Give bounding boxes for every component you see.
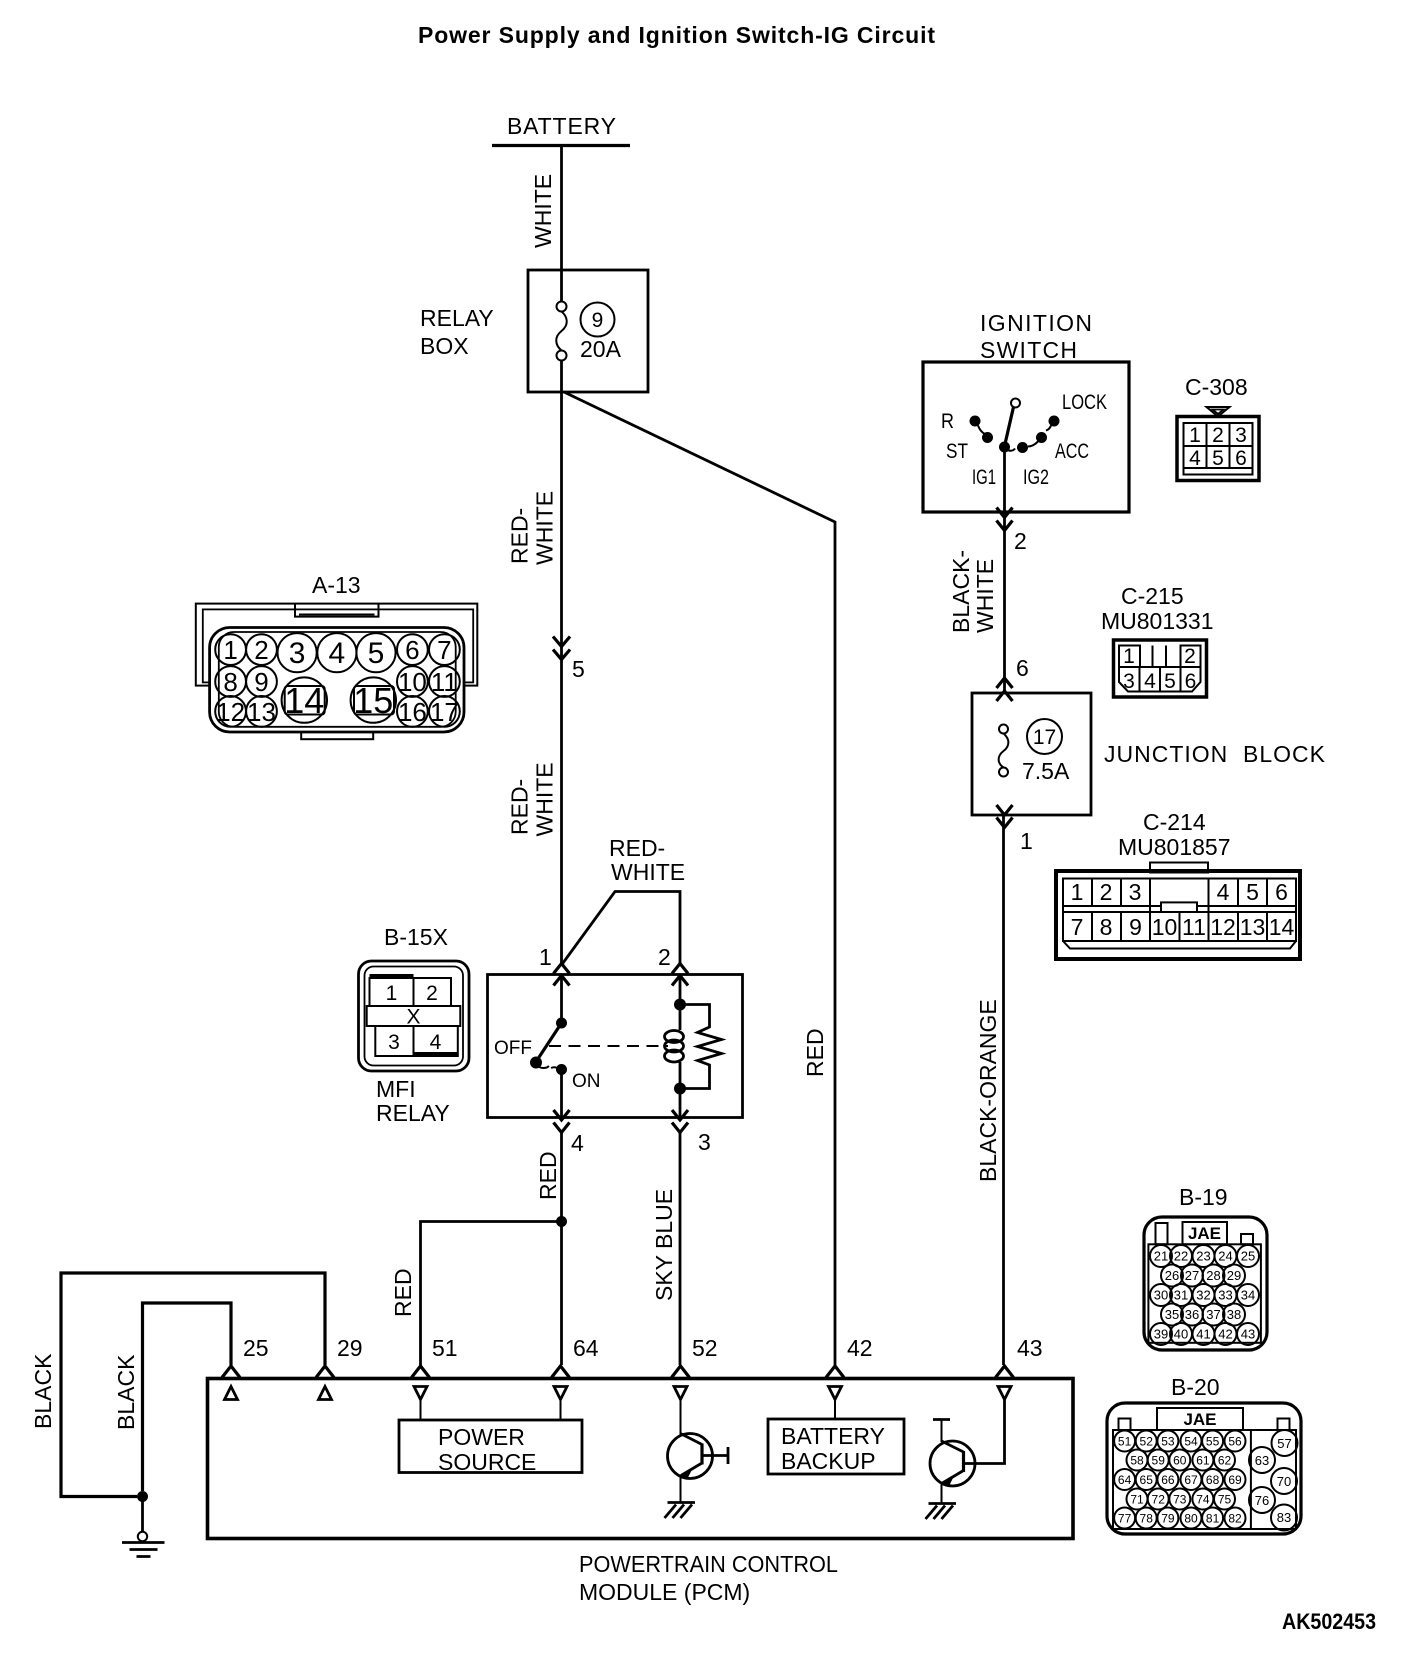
PCM pin 64 bbox=[552, 1335, 599, 1400]
svg-text:BATTERY: BATTERY bbox=[781, 1423, 885, 1449]
svg-text:C-308: C-308 bbox=[1185, 374, 1248, 400]
MFI relay pin 4 arrow bbox=[554, 1110, 585, 1156]
B-19 pins 30-34 bbox=[1150, 1284, 1259, 1306]
connector icon B-15X bbox=[359, 924, 470, 1126]
svg-text:75: 75 bbox=[1218, 1493, 1232, 1507]
svg-text:6: 6 bbox=[1016, 655, 1029, 681]
svg-text:40: 40 bbox=[1174, 1327, 1188, 1342]
svg-text:42: 42 bbox=[1218, 1327, 1232, 1342]
svg-text:Power Supply and Ignition Swit: Power Supply and Ignition Switch-IG Circ… bbox=[418, 22, 935, 48]
svg-text:58: 58 bbox=[1130, 1454, 1144, 1468]
svg-text:1: 1 bbox=[1123, 645, 1135, 668]
svg-text:32: 32 bbox=[1196, 1288, 1210, 1303]
svg-text:WHITE: WHITE bbox=[972, 559, 998, 633]
svg-text:43: 43 bbox=[1241, 1327, 1255, 1342]
svg-text:15: 15 bbox=[353, 680, 393, 721]
svg-text:52: 52 bbox=[692, 1335, 718, 1361]
wire battery to relay box bbox=[560, 146, 563, 271]
ignition switch U1 bbox=[923, 310, 1129, 512]
svg-text:81: 81 bbox=[1206, 1512, 1220, 1526]
svg-text:4: 4 bbox=[571, 1130, 584, 1156]
svg-text:2: 2 bbox=[426, 982, 438, 1005]
ignition switch position labels bbox=[941, 391, 1107, 489]
svg-text:30: 30 bbox=[1154, 1288, 1168, 1303]
svg-text:2: 2 bbox=[1212, 424, 1224, 447]
svg-text:23: 23 bbox=[1196, 1249, 1210, 1264]
svg-text:34: 34 bbox=[1241, 1288, 1255, 1303]
MFI relay pin 3 arrow bbox=[672, 1110, 711, 1155]
PCM pin 52 bbox=[672, 1335, 718, 1400]
wire ignition switch to junction block bbox=[1003, 447, 1006, 693]
svg-text:77: 77 bbox=[1118, 1512, 1132, 1526]
svg-text:B-20: B-20 bbox=[1171, 1374, 1220, 1400]
PCM pin 51 bbox=[412, 1335, 458, 1400]
svg-text:39: 39 bbox=[1154, 1327, 1168, 1342]
PCM pin 43 bbox=[996, 1335, 1043, 1400]
svg-text:29: 29 bbox=[1227, 1268, 1241, 1283]
svg-text:4: 4 bbox=[430, 1031, 442, 1054]
ignition switch contact LOCK bbox=[1046, 416, 1060, 431]
svg-text:7: 7 bbox=[437, 635, 451, 665]
wire label RED-WHITE (lower) bbox=[507, 762, 558, 836]
A-13 pin 5 bbox=[356, 633, 395, 672]
svg-text:BATTERY: BATTERY bbox=[507, 113, 616, 139]
svg-text:60: 60 bbox=[1173, 1454, 1187, 1468]
svg-text:6: 6 bbox=[1275, 879, 1288, 905]
wire junction block to PCM pin 43 bbox=[1002, 815, 1005, 1365]
svg-text:4: 4 bbox=[1217, 879, 1230, 905]
svg-text:63: 63 bbox=[1255, 1453, 1269, 1468]
svg-text:3: 3 bbox=[1123, 670, 1135, 693]
junction block bbox=[972, 693, 1326, 815]
svg-text:14: 14 bbox=[1269, 914, 1295, 940]
node ground junction bbox=[137, 1491, 148, 1502]
svg-text:79: 79 bbox=[1161, 1512, 1175, 1526]
node RED junction bbox=[556, 1216, 567, 1227]
svg-text:66: 66 bbox=[1161, 1473, 1175, 1487]
connector B-20 bbox=[1107, 1374, 1301, 1534]
arrow at ignition switch pin 2 bbox=[997, 508, 1027, 555]
PCM box (powertrain control module) bbox=[208, 1379, 1074, 1606]
svg-text:C-214: C-214 bbox=[1143, 809, 1206, 835]
svg-text:82: 82 bbox=[1228, 1512, 1242, 1526]
svg-text:AK502453: AK502453 bbox=[1282, 1609, 1376, 1634]
svg-text:WHITE: WHITE bbox=[532, 491, 558, 565]
svg-text:MU801857: MU801857 bbox=[1118, 834, 1231, 860]
svg-text:14: 14 bbox=[284, 680, 324, 721]
svg-text:8: 8 bbox=[1100, 914, 1113, 940]
svg-text:IGNITION: IGNITION bbox=[980, 310, 1092, 336]
svg-text:67: 67 bbox=[1184, 1473, 1198, 1487]
connector C-215 MU801331 bbox=[1101, 583, 1214, 697]
svg-text:BLACK: BLACK bbox=[113, 1354, 139, 1430]
svg-text:MU801331: MU801331 bbox=[1101, 608, 1214, 634]
svg-text:13: 13 bbox=[247, 697, 276, 727]
svg-text:SKY BLUE: SKY BLUE bbox=[651, 1189, 677, 1301]
A-13 pin 3 bbox=[278, 633, 317, 672]
connector C-214 MU801857 bbox=[1056, 809, 1300, 959]
A-13 pin 14 bbox=[282, 677, 327, 722]
battery backup block bbox=[768, 1400, 904, 1475]
fuse F17 7.5A bbox=[999, 719, 1070, 784]
svg-text:71: 71 bbox=[1130, 1493, 1144, 1507]
PCM pin 29 bbox=[316, 1335, 363, 1400]
battery terminal bbox=[492, 113, 630, 146]
power source block bbox=[399, 1400, 582, 1476]
svg-text:9: 9 bbox=[592, 309, 604, 332]
svg-text:25: 25 bbox=[243, 1335, 269, 1361]
svg-text:68: 68 bbox=[1206, 1473, 1220, 1487]
svg-text:26: 26 bbox=[1165, 1268, 1179, 1283]
svg-text:12: 12 bbox=[216, 697, 245, 727]
svg-text:3: 3 bbox=[388, 1031, 400, 1054]
svg-text:JAE: JAE bbox=[1183, 1410, 1216, 1429]
svg-text:76: 76 bbox=[1255, 1493, 1269, 1508]
svg-text:2: 2 bbox=[658, 944, 671, 970]
svg-text:1: 1 bbox=[1071, 879, 1084, 905]
svg-text:64: 64 bbox=[573, 1335, 599, 1361]
svg-text:2: 2 bbox=[254, 635, 268, 665]
svg-text:ACC: ACC bbox=[1055, 440, 1089, 463]
relay resistor bbox=[674, 1005, 722, 1118]
B-20 pins 71-76 bbox=[1127, 1487, 1276, 1513]
A-13 pin 7 bbox=[429, 634, 460, 665]
svg-text:6: 6 bbox=[1235, 447, 1247, 470]
svg-text:55: 55 bbox=[1206, 1435, 1220, 1449]
svg-text:10: 10 bbox=[1152, 914, 1178, 940]
svg-text:2: 2 bbox=[1100, 879, 1113, 905]
A-13 pin 11 bbox=[429, 666, 460, 697]
svg-text:SOURCE: SOURCE bbox=[438, 1449, 536, 1475]
svg-text:41: 41 bbox=[1196, 1327, 1210, 1342]
svg-text:62: 62 bbox=[1218, 1454, 1232, 1468]
svg-text:16: 16 bbox=[398, 697, 427, 727]
A-13 pin 6 bbox=[397, 634, 428, 665]
svg-text:38: 38 bbox=[1227, 1307, 1241, 1322]
arrow connector 5 bbox=[553, 637, 585, 683]
wire label RED-WHITE (upper) bbox=[507, 491, 558, 565]
svg-text:27: 27 bbox=[1185, 1268, 1199, 1283]
wire MFI pin 4 to PCM pin 64 bbox=[560, 1133, 563, 1366]
svg-text:7: 7 bbox=[1071, 914, 1084, 940]
svg-text:4: 4 bbox=[329, 637, 346, 670]
svg-text:RELAY: RELAY bbox=[376, 1100, 450, 1126]
svg-text:9: 9 bbox=[254, 667, 268, 697]
svg-text:51: 51 bbox=[1118, 1435, 1132, 1449]
A-13 pin 15 bbox=[351, 677, 396, 722]
svg-text:X: X bbox=[406, 1006, 420, 1029]
B-20 pins 51-57 bbox=[1114, 1430, 1297, 1456]
svg-text:53: 53 bbox=[1161, 1435, 1175, 1449]
svg-text:BLACK: BLACK bbox=[30, 1353, 56, 1429]
svg-text:21: 21 bbox=[1154, 1249, 1168, 1264]
connector A-13 bbox=[196, 572, 478, 739]
svg-text:C-215: C-215 bbox=[1121, 583, 1184, 609]
svg-text:3: 3 bbox=[1235, 424, 1247, 447]
B-19 pins 21-25 bbox=[1150, 1245, 1259, 1267]
svg-text:BLACK-ORANGE: BLACK-ORANGE bbox=[975, 999, 1001, 1182]
B-20 pins 58-63 bbox=[1127, 1447, 1276, 1473]
svg-text:57: 57 bbox=[1277, 1436, 1291, 1451]
wire relay box to PCM pin 42 (diagonal + vertical RED wire) bbox=[564, 392, 835, 1365]
svg-text:1: 1 bbox=[539, 944, 552, 970]
svg-text:IG2: IG2 bbox=[1023, 466, 1049, 489]
svg-text:13: 13 bbox=[1240, 914, 1266, 940]
svg-text:72: 72 bbox=[1152, 1493, 1166, 1507]
svg-text:RED: RED bbox=[802, 1028, 828, 1077]
svg-text:20A: 20A bbox=[580, 336, 622, 362]
svg-text:RELAY: RELAY bbox=[420, 305, 494, 331]
A-13 pin 17 bbox=[429, 696, 460, 727]
svg-text:78: 78 bbox=[1140, 1512, 1154, 1526]
relay coil dashed actuation line bbox=[549, 1045, 668, 1047]
B-19 pins 26-29 bbox=[1161, 1265, 1245, 1287]
relay box bbox=[420, 270, 648, 392]
svg-text:SWITCH: SWITCH bbox=[980, 337, 1077, 363]
ignition switch contact R bbox=[970, 416, 994, 444]
wire relay box to MFI relay pin 1 bbox=[560, 392, 563, 963]
svg-text:3: 3 bbox=[1129, 879, 1142, 905]
arrow at junction block pin 6 bbox=[997, 678, 1013, 701]
svg-text:RED-: RED- bbox=[507, 508, 533, 564]
svg-text:2: 2 bbox=[1014, 528, 1027, 554]
svg-text:83: 83 bbox=[1277, 1510, 1291, 1525]
svg-text:B-19: B-19 bbox=[1179, 1184, 1228, 1210]
MFI relay pin 1 arrow bbox=[539, 944, 570, 986]
svg-text:2: 2 bbox=[1184, 645, 1196, 668]
svg-text:RED-: RED- bbox=[609, 835, 665, 861]
svg-text:RED: RED bbox=[535, 1151, 561, 1200]
A-13 pin 16 bbox=[397, 696, 428, 727]
svg-text:17: 17 bbox=[1033, 726, 1056, 749]
wire branch to PCM pin 51 bbox=[421, 1222, 562, 1366]
B-19 pins 35-38 bbox=[1161, 1304, 1245, 1326]
svg-text:42: 42 bbox=[847, 1335, 873, 1361]
ignition switch contact IG1 (center node) bbox=[999, 442, 1015, 453]
svg-text:12: 12 bbox=[1210, 914, 1236, 940]
svg-text:74: 74 bbox=[1196, 1493, 1210, 1507]
svg-text:RED: RED bbox=[390, 1268, 416, 1317]
svg-text:POWERTRAIN CONTROL: POWERTRAIN CONTROL bbox=[579, 1551, 838, 1577]
svg-text:OFF: OFF bbox=[494, 1038, 532, 1059]
svg-text:BLACK-: BLACK- bbox=[948, 550, 974, 633]
svg-text:1: 1 bbox=[1020, 828, 1033, 854]
PCM pin 42 bbox=[826, 1335, 873, 1400]
svg-text:65: 65 bbox=[1140, 1473, 1154, 1487]
svg-text:35: 35 bbox=[1165, 1307, 1179, 1322]
svg-text:BACKUP: BACKUP bbox=[781, 1448, 876, 1474]
A-13 pin 10 bbox=[397, 666, 428, 697]
svg-text:IG1: IG1 bbox=[972, 466, 996, 489]
svg-text:4: 4 bbox=[1189, 447, 1201, 470]
svg-text:B-15X: B-15X bbox=[384, 924, 448, 950]
ground Q2 bbox=[926, 1504, 957, 1520]
svg-text:5: 5 bbox=[1164, 670, 1176, 693]
svg-text:11: 11 bbox=[431, 667, 458, 697]
connector B-19 bbox=[1144, 1184, 1267, 1350]
PCM pin 25 bbox=[222, 1335, 269, 1400]
svg-text:5: 5 bbox=[368, 637, 385, 670]
MFI relay pin 2 arrow bbox=[658, 944, 688, 986]
svg-text:37: 37 bbox=[1206, 1307, 1220, 1322]
svg-text:70: 70 bbox=[1277, 1474, 1291, 1489]
svg-text:6: 6 bbox=[1185, 670, 1197, 693]
svg-text:24: 24 bbox=[1218, 1249, 1232, 1264]
svg-text:56: 56 bbox=[1228, 1435, 1242, 1449]
svg-text:80: 80 bbox=[1184, 1512, 1198, 1526]
svg-text:7.5A: 7.5A bbox=[1022, 758, 1070, 784]
A-13 pin 13 bbox=[246, 696, 277, 727]
svg-text:22: 22 bbox=[1174, 1249, 1188, 1264]
svg-text:9: 9 bbox=[1129, 914, 1142, 940]
svg-text:33: 33 bbox=[1218, 1288, 1232, 1303]
svg-text:JAE: JAE bbox=[1188, 1224, 1221, 1243]
svg-text:64: 64 bbox=[1118, 1473, 1132, 1487]
ignition switch rotor bbox=[1005, 399, 1020, 445]
svg-text:51: 51 bbox=[432, 1335, 458, 1361]
ground Q1 bbox=[665, 1503, 696, 1519]
svg-text:3: 3 bbox=[289, 637, 306, 670]
svg-text:28: 28 bbox=[1206, 1268, 1220, 1283]
svg-text:WHITE: WHITE bbox=[532, 762, 558, 836]
A-13 pin 4 bbox=[317, 633, 356, 672]
svg-text:11: 11 bbox=[1182, 914, 1206, 940]
svg-text:29: 29 bbox=[337, 1335, 363, 1361]
A-13 pin 12 bbox=[215, 696, 246, 727]
svg-text:WHITE: WHITE bbox=[611, 859, 685, 885]
wire BLACK outer (PCM pin 29 to ground) bbox=[61, 1273, 325, 1497]
svg-text:17: 17 bbox=[430, 697, 459, 727]
svg-text:JUNCTION BLOCK: JUNCTION BLOCK bbox=[1104, 741, 1326, 767]
svg-text:POWER: POWER bbox=[438, 1424, 525, 1450]
svg-text:5: 5 bbox=[1212, 447, 1224, 470]
svg-text:RED-: RED- bbox=[507, 779, 533, 835]
svg-text:5: 5 bbox=[1246, 879, 1259, 905]
B-20 pins 77-83 bbox=[1114, 1505, 1297, 1531]
svg-text:73: 73 bbox=[1173, 1493, 1187, 1507]
ground (chassis) bbox=[122, 1497, 165, 1557]
transistor Q1 (pin 52 driver) bbox=[668, 1400, 729, 1503]
svg-text:WHITE: WHITE bbox=[530, 174, 556, 248]
wire label BLACK-WHITE bbox=[948, 550, 998, 633]
wire MFI pin 3 to PCM pin 52 bbox=[679, 1133, 682, 1366]
svg-text:A-13: A-13 bbox=[312, 572, 361, 598]
svg-text:4: 4 bbox=[1144, 670, 1156, 693]
wire label RED-WHITE with leader to pins 1 and 2 bbox=[562, 835, 686, 965]
svg-text:1: 1 bbox=[386, 982, 398, 1005]
svg-text:LOCK: LOCK bbox=[1062, 391, 1107, 414]
svg-text:3: 3 bbox=[698, 1129, 711, 1155]
ignition switch contact ACC bbox=[1017, 432, 1047, 453]
svg-text:54: 54 bbox=[1184, 1435, 1198, 1449]
svg-text:6: 6 bbox=[405, 635, 419, 665]
A-13 pin 8 bbox=[215, 666, 246, 697]
svg-text:BOX: BOX bbox=[420, 333, 469, 359]
A-13 pin 1 bbox=[215, 634, 246, 665]
svg-text:10: 10 bbox=[398, 667, 427, 697]
wire BLACK inner (PCM pin 25 to ground) bbox=[143, 1303, 232, 1491]
A-13 pin 2 bbox=[246, 634, 277, 665]
relay coil bbox=[665, 975, 687, 1089]
svg-text:69: 69 bbox=[1228, 1473, 1242, 1487]
svg-text:R: R bbox=[941, 410, 954, 433]
fuse F9 20A bbox=[556, 270, 621, 392]
svg-text:31: 31 bbox=[1174, 1288, 1188, 1303]
svg-text:43: 43 bbox=[1017, 1335, 1043, 1361]
svg-text:25: 25 bbox=[1241, 1249, 1255, 1264]
svg-text:8: 8 bbox=[223, 667, 237, 697]
svg-text:ON: ON bbox=[572, 1071, 601, 1092]
A-13 pin 9 bbox=[246, 666, 277, 697]
svg-text:1: 1 bbox=[223, 635, 237, 665]
svg-text:5: 5 bbox=[572, 656, 585, 682]
svg-text:36: 36 bbox=[1185, 1307, 1199, 1322]
svg-text:61: 61 bbox=[1196, 1454, 1210, 1468]
svg-text:MODULE (PCM): MODULE (PCM) bbox=[579, 1579, 750, 1605]
svg-text:1: 1 bbox=[1189, 424, 1201, 447]
connector C-308 bbox=[1177, 374, 1259, 481]
svg-text:ST: ST bbox=[946, 440, 968, 463]
transistor Q2 (pin 43 driver) bbox=[930, 1400, 1005, 1504]
svg-text:MFI: MFI bbox=[376, 1076, 416, 1102]
svg-text:59: 59 bbox=[1152, 1454, 1166, 1468]
B-20 pins 64-70 bbox=[1114, 1468, 1297, 1494]
arrow at junction block pin 1 bbox=[997, 805, 1033, 854]
MFI relay box bbox=[488, 975, 743, 1118]
relay switch OFF/ON bbox=[494, 975, 601, 1118]
B-19 pins 39-43 bbox=[1150, 1323, 1259, 1345]
svg-text:52: 52 bbox=[1140, 1435, 1154, 1449]
